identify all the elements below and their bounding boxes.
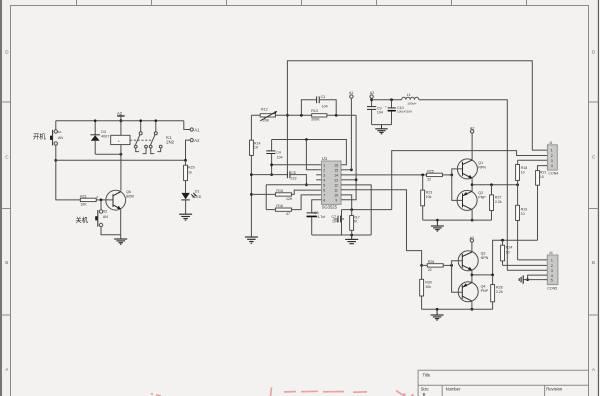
svg-text:LED: LED: [194, 195, 201, 199]
node lower base column: [450, 264, 453, 267]
svg-text:+: +: [385, 105, 387, 109]
wire lower ground rail: [422, 308, 493, 310]
svg-text:100uF/16V: 100uF/16V: [397, 110, 413, 114]
svg-text:开机: 开机: [33, 132, 46, 141]
wire feedback vertical to C5: [286, 115, 288, 171]
svg-text:R26: R26: [428, 260, 435, 264]
svg-text:A1: A1: [194, 127, 200, 132]
svg-text:A2: A2: [117, 111, 123, 116]
wire R12 R13 row: [251, 114, 311, 116]
wire pin1: [272, 164, 322, 166]
node R24 takeoff: [501, 239, 504, 242]
wire pin5 row: [266, 184, 321, 186]
svg-text:2N2: 2N2: [166, 140, 174, 145]
svg-text:10k: 10k: [425, 285, 431, 289]
svg-text:SG3525: SG3525: [322, 204, 338, 209]
svg-text:R16: R16: [276, 204, 283, 208]
ground below D1: [179, 214, 192, 220]
svg-text:C5: C5: [291, 171, 296, 175]
resistor R26: [420, 260, 443, 272]
wire pin8 to C6: [312, 200, 322, 213]
svg-text:Size: Size: [421, 386, 430, 391]
sheet outer border right: [597, 0, 599, 396]
svg-text:12K: 12K: [286, 197, 293, 201]
svg-text:10: 10: [540, 175, 544, 179]
svg-text:Q3: Q3: [481, 251, 486, 255]
wire Q2 top to rail: [471, 185, 473, 191]
node J4 ground jog: [526, 278, 529, 281]
node coil bottom: [120, 153, 123, 156]
svg-text:6: 6: [323, 188, 325, 192]
svg-text:R12: R12: [261, 108, 268, 112]
transistor Q1: [457, 159, 486, 179]
wire R15 right to pin6: [292, 190, 322, 194]
ground below R17: [345, 235, 358, 244]
terminal A2 mid: [370, 91, 374, 106]
relay K1 contact 1: [134, 119, 147, 153]
svg-text:2: 2: [96, 195, 98, 199]
transistor Q3: [458, 251, 488, 271]
svg-text:D1: D1: [195, 190, 200, 194]
svg-text:R29: R29: [188, 165, 195, 169]
svg-text:R28: R28: [496, 286, 503, 290]
svg-text:10: 10: [521, 171, 525, 175]
svg-text:3: 3: [551, 159, 553, 163]
svg-text:10k: 10k: [426, 195, 432, 199]
node base / S2 junction: [100, 199, 103, 202]
wire R15 R16 left loop: [265, 185, 267, 210]
svg-text:5: 5: [551, 279, 553, 283]
svg-text:S2: S2: [103, 209, 107, 213]
wire pin14 long: [341, 174, 427, 176]
relay actuator dashed line: [130, 139, 153, 141]
svg-text:8050: 8050: [126, 195, 134, 199]
node S1 bottom junction: [54, 159, 57, 162]
svg-text:NPN: NPN: [478, 166, 486, 170]
node C3 left: [300, 114, 303, 117]
svg-text:R23: R23: [426, 191, 433, 195]
ground mid supply: [375, 125, 387, 134]
wire lower emitter rail: [472, 274, 493, 276]
svg-text:47: 47: [286, 212, 290, 216]
svg-text:PNP: PNP: [478, 195, 486, 199]
terminal A2 left: [186, 138, 201, 160]
wire C4 pin2 pin16 rail: [272, 140, 347, 165]
svg-text:4: 4: [551, 164, 553, 168]
svg-text:104: 104: [332, 219, 338, 223]
node pin15 / A1: [350, 168, 353, 171]
margin row divider right y310: [589, 314, 599, 316]
wire A2 port down through relay coil: [120, 117, 122, 136]
wire pin15: [341, 169, 351, 171]
svg-text:Number: Number: [446, 386, 461, 391]
wire C9 C10 ground rail: [372, 124, 392, 126]
transistor Q4: [458, 282, 488, 302]
resistor R11: [80, 195, 98, 207]
power port A2 left: [117, 111, 125, 117]
resistor R21: [536, 170, 547, 240]
svg-text:A2: A2: [194, 138, 200, 143]
ground J4 sideways: [519, 275, 523, 283]
svg-text:4: 4: [551, 274, 553, 278]
node pin2 branch: [305, 138, 308, 141]
node R28 top: [491, 274, 494, 277]
svg-text:4007: 4007: [101, 134, 109, 138]
node junction top rail / A2: [120, 119, 123, 122]
wire R19 to J4 pin1: [518, 259, 548, 261]
potentiometer R12: [260, 108, 277, 123]
pushbutton S1: [50, 121, 63, 161]
svg-text:4.7uf: 4.7uf: [317, 215, 325, 219]
wire Q3 Q4 base column: [452, 261, 463, 293]
svg-text:AN: AN: [58, 136, 63, 140]
wire coil bottom to Q6 collector: [120, 145, 122, 191]
svg-text:1k: 1k: [188, 171, 192, 175]
margin row divider left y310: [1, 314, 11, 316]
wire Q3 emitter down: [471, 270, 473, 275]
node A2 rail: [370, 98, 373, 101]
svg-text:R11: R11: [80, 195, 86, 199]
svg-text:2.2k: 2.2k: [496, 290, 503, 294]
ground below R14: [245, 237, 258, 243]
power port A2 upper: [470, 127, 474, 161]
svg-text:8: 8: [323, 198, 325, 202]
resistor R30: [420, 265, 432, 309]
resistor R14: [250, 115, 261, 236]
svg-text:R24: R24: [506, 246, 513, 250]
capacitor C9: [367, 107, 383, 125]
node R17 bottom: [350, 234, 353, 237]
capacitor C10 polarized: [385, 100, 413, 125]
node A2 / R29 junction: [184, 159, 187, 162]
svg-text:10K: 10K: [80, 202, 87, 206]
resistor R23: [421, 174, 432, 221]
svg-text:B: B: [592, 260, 595, 265]
wire pin2 branch: [306, 140, 321, 170]
pin 3 stub: [316, 174, 321, 176]
wire R11 to Q6 base: [96, 199, 113, 201]
svg-text:11: 11: [334, 188, 338, 192]
resistor R18: [516, 160, 528, 185]
wire R24 to J4 pin2: [503, 264, 548, 266]
svg-text:2: 2: [551, 264, 553, 268]
wire S1 node down to R11: [56, 160, 81, 200]
wire upper ground rail: [423, 219, 492, 221]
svg-text:1: 1: [551, 149, 553, 153]
terminal A1 left: [184, 121, 200, 133]
wire Q1 Q2 base column: [452, 169, 463, 201]
svg-text:22: 22: [428, 268, 432, 272]
capacitor C6 polarized: [307, 211, 326, 235]
svg-text:15: 15: [334, 168, 338, 172]
inductor L1: [402, 93, 419, 106]
node pin13 tie: [355, 178, 358, 181]
connector J4: [547, 251, 558, 290]
capacitor C3: [301, 95, 336, 115]
svg-text:Q2: Q2: [478, 191, 483, 195]
svg-text:U1: U1: [322, 156, 328, 161]
wire pin11 long: [341, 190, 422, 266]
svg-text:R15: R15: [276, 189, 283, 193]
wire J4 pin4 ground jog: [528, 275, 548, 280]
wire Q2 bottom to ground rail: [471, 210, 473, 220]
sheet outer border left: [0, 0, 2, 396]
wire shutdown to J1 pin2: [392, 151, 548, 210]
margin row divider left y205.5: [1, 208, 11, 210]
svg-text:2: 2: [323, 168, 325, 172]
wire D3 bottom to coil bottom: [95, 153, 121, 155]
svg-text:4: 4: [323, 178, 325, 182]
wire J1 pin4 to R21: [538, 166, 548, 171]
node emitter rail R18: [516, 183, 519, 186]
wire pin13: [341, 179, 356, 181]
transistor Q6: [106, 190, 134, 210]
node Q4 ground: [471, 308, 474, 311]
relay K1 contact 2: [149, 119, 162, 153]
resistor R28: [491, 275, 503, 309]
node main column C5 row: [250, 173, 253, 176]
svg-text:R18: R18: [521, 166, 528, 170]
svg-text:R13: R13: [311, 109, 318, 113]
wire J4 pin5: [524, 279, 548, 281]
node Q2 ground: [471, 219, 474, 222]
top column ticks: [77, 0, 527, 6]
svg-text:J4: J4: [549, 251, 553, 255]
wire rail left side down: [341, 210, 343, 235]
wire emitter rail upper: [472, 184, 517, 186]
svg-text:100uH: 100uH: [407, 102, 416, 106]
wire R25 to bases: [442, 174, 451, 176]
pin 4 stub: [316, 179, 321, 181]
wire R26 to bases: [443, 264, 451, 266]
margin row divider right y101: [589, 101, 599, 103]
ground upper pair: [436, 219, 439, 222]
wire shutdown rail: [342, 209, 392, 211]
node R12 row / feedback: [286, 114, 289, 117]
svg-text:PNP: PNP: [481, 289, 489, 293]
label K1 2N2: [166, 135, 174, 145]
svg-text:L: L: [118, 139, 120, 143]
svg-text:5: 5: [323, 183, 325, 187]
svg-text:CON5: CON5: [547, 286, 557, 290]
resistor R13: [311, 109, 327, 122]
wire Q4 bottom to ground rail: [471, 301, 473, 309]
wire S1 bottom rail to A2/R29 node: [56, 159, 186, 161]
power port A2 lower: [470, 236, 474, 252]
svg-text:200K: 200K: [311, 118, 320, 122]
wire J1 pin3: [518, 159, 548, 161]
svg-text:C3: C3: [321, 95, 326, 99]
svg-text:R30: R30: [425, 280, 432, 284]
capacitor C5: [287, 171, 306, 185]
svg-text:7: 7: [323, 193, 325, 197]
node base column: [450, 174, 453, 177]
node pin1 / C4: [270, 163, 273, 166]
title block frame: [418, 370, 588, 396]
svg-text:9: 9: [335, 198, 337, 202]
resistor R27: [490, 183, 502, 220]
resistor R29: [184, 160, 195, 193]
connector J1: [547, 141, 558, 175]
svg-text:C7: C7: [332, 215, 337, 219]
ground lower pair: [436, 308, 439, 311]
terminal A1 mid: [349, 91, 353, 170]
wire R16 left: [266, 209, 275, 211]
resistor R16: [275, 204, 291, 216]
wire top rail: [56, 120, 184, 122]
svg-text:22: 22: [427, 178, 431, 182]
svg-text:AN: AN: [103, 215, 108, 219]
svg-text:CON4: CON4: [548, 171, 558, 175]
svg-text:13: 13: [334, 178, 338, 182]
svg-text:Revision: Revision: [546, 386, 563, 391]
capacitor C4: [266, 140, 282, 175]
svg-text:1: 1: [323, 163, 325, 167]
resistor R24: [501, 240, 513, 265]
svg-text:2K: 2K: [353, 220, 358, 224]
svg-text:2: 2: [551, 154, 553, 158]
node C3 right: [335, 114, 338, 117]
svg-text:Q4: Q4: [481, 284, 486, 288]
svg-text:222: 222: [291, 177, 297, 181]
resistor R25: [427, 170, 443, 182]
wire R15 left: [251, 193, 275, 195]
svg-text:J1: J1: [549, 141, 553, 145]
wire Q6 emitter to ground: [120, 210, 122, 239]
svg-text:104: 104: [277, 156, 283, 160]
svg-text:R25: R25: [427, 170, 434, 174]
svg-text:R19: R19: [521, 207, 528, 211]
svg-text:1: 1: [551, 259, 553, 263]
transistor Q2: [457, 190, 486, 210]
resistor R15: [275, 189, 293, 201]
svg-text:B: B: [5, 260, 8, 265]
node C4 / C5 row: [270, 173, 273, 176]
IC U1 SG3525: [316, 156, 341, 209]
svg-text:20K: 20K: [263, 119, 270, 123]
wire pin10: [341, 195, 352, 210]
svg-text:12: 12: [334, 183, 338, 187]
capacitor C7: [332, 215, 345, 224]
svg-text:10: 10: [521, 212, 525, 216]
svg-text:3: 3: [551, 269, 553, 273]
node emitter rail Q1: [471, 183, 474, 186]
wire C5 row: [251, 174, 287, 176]
svg-text:10: 10: [506, 250, 510, 254]
node C5 / pin5: [305, 183, 308, 186]
wire Q1 emitter down: [471, 178, 473, 185]
wire R21 across to lower pair: [493, 240, 538, 275]
svg-text:NPN: NPN: [481, 256, 489, 260]
LED D1: [181, 190, 201, 214]
wire pin12 to ground rail: [341, 185, 371, 235]
node pin10 R17: [350, 208, 353, 211]
svg-text:C4: C4: [276, 151, 281, 155]
svg-text:2.2k: 2.2k: [495, 200, 502, 204]
svg-text:3: 3: [323, 173, 325, 177]
resistor R19: [516, 185, 528, 260]
wire R13 right down to pin9: [341, 115, 356, 200]
diode D3: [90, 119, 109, 154]
node lower emitter rail: [471, 274, 474, 277]
svg-text:14: 14: [334, 173, 338, 177]
svg-text:Q1: Q1: [478, 161, 483, 165]
node main column R15 row: [250, 193, 253, 196]
margin row divider left y101: [1, 101, 11, 103]
margin row divider right y205.5: [589, 208, 599, 210]
red watermark strokes: [156, 388, 404, 396]
svg-text:关机: 关机: [76, 215, 89, 224]
ground below Q6: [114, 239, 127, 244]
node C10 top: [390, 98, 393, 101]
wire A2 rail to L1: [372, 99, 402, 101]
svg-text:B: B: [423, 392, 426, 396]
resistor R17: [350, 210, 360, 235]
wire L1 output to J4 pin3: [419, 100, 548, 270]
wire feedback top rail: [287, 61, 547, 150]
svg-text:L1: L1: [407, 93, 411, 97]
svg-text:104: 104: [377, 110, 383, 114]
relay K1 coil: [111, 135, 130, 144]
svg-text:S1: S1: [58, 130, 62, 134]
wire R16 right to pin7: [292, 195, 322, 210]
svg-text:10: 10: [334, 193, 338, 197]
svg-text:104: 104: [322, 104, 328, 108]
svg-text:R21: R21: [540, 170, 547, 174]
svg-text:Title: Title: [423, 373, 431, 378]
pushbutton S2: [95, 200, 121, 235]
wire ground rail under U1: [312, 234, 372, 236]
wire Q4 top to rail: [471, 275, 473, 283]
svg-text:1K: 1K: [254, 146, 259, 150]
svg-text:16: 16: [334, 163, 338, 167]
